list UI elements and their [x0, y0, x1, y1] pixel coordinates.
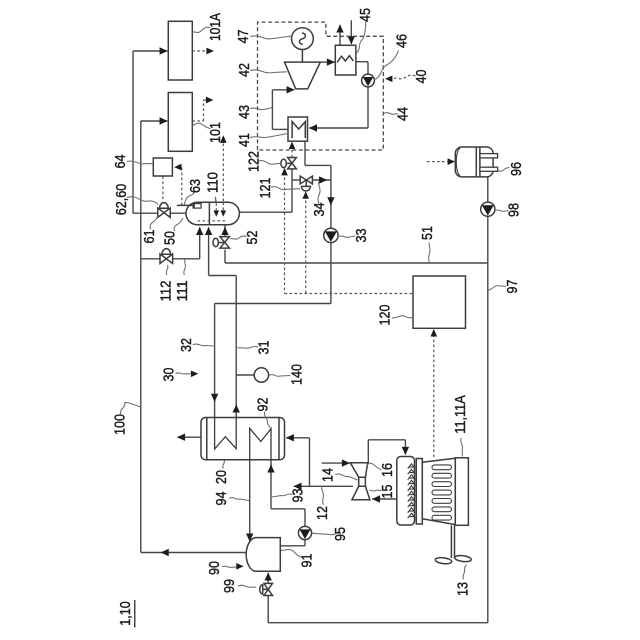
svg-text:16: 16: [380, 463, 396, 477]
svg-text:50: 50: [163, 231, 179, 245]
svg-text:122: 122: [246, 151, 262, 172]
svg-text:99: 99: [222, 579, 238, 593]
svg-text:92: 92: [256, 397, 272, 411]
svg-text:34: 34: [312, 202, 328, 216]
svg-text:15: 15: [380, 484, 396, 498]
svg-text:42: 42: [237, 63, 253, 77]
svg-text:96: 96: [509, 162, 525, 176]
svg-text:140: 140: [290, 364, 306, 385]
svg-text:13: 13: [456, 582, 472, 596]
svg-text:90: 90: [207, 561, 223, 575]
svg-text:112: 112: [159, 280, 175, 301]
svg-text:32: 32: [179, 338, 195, 352]
svg-text:12: 12: [315, 506, 331, 520]
svg-text:11,11A: 11,11A: [453, 395, 469, 434]
svg-text:100: 100: [113, 414, 129, 435]
svg-text:47: 47: [236, 29, 252, 43]
svg-text:41: 41: [237, 133, 253, 147]
svg-text:20: 20: [214, 470, 230, 484]
svg-text:43: 43: [237, 105, 253, 119]
svg-text:46: 46: [395, 34, 411, 48]
svg-text:64: 64: [113, 154, 129, 168]
svg-text:52: 52: [245, 230, 261, 244]
svg-text:110: 110: [206, 172, 222, 193]
svg-text:97: 97: [505, 279, 521, 293]
svg-text:111: 111: [175, 280, 191, 301]
svg-text:91: 91: [300, 553, 316, 567]
svg-text:14: 14: [321, 468, 337, 482]
svg-text:44: 44: [396, 107, 412, 121]
svg-text:98: 98: [507, 203, 523, 217]
svg-text:31: 31: [257, 340, 273, 354]
svg-text:61: 61: [142, 229, 158, 243]
svg-text:93: 93: [291, 488, 307, 502]
svg-text:95: 95: [333, 527, 349, 541]
svg-text:121: 121: [258, 177, 274, 198]
svg-text:63: 63: [188, 179, 204, 193]
svg-text:1,10: 1,10: [118, 601, 134, 626]
svg-text:120: 120: [377, 304, 393, 325]
svg-text:33: 33: [354, 228, 370, 242]
svg-text:45: 45: [358, 8, 374, 22]
svg-text:40: 40: [414, 69, 430, 83]
svg-text:62,60: 62,60: [114, 184, 130, 216]
svg-text:51: 51: [420, 226, 436, 240]
svg-text:94: 94: [214, 491, 230, 505]
svg-text:101A: 101A: [208, 13, 224, 41]
svg-text:30: 30: [162, 367, 178, 381]
svg-text:101: 101: [208, 122, 224, 143]
